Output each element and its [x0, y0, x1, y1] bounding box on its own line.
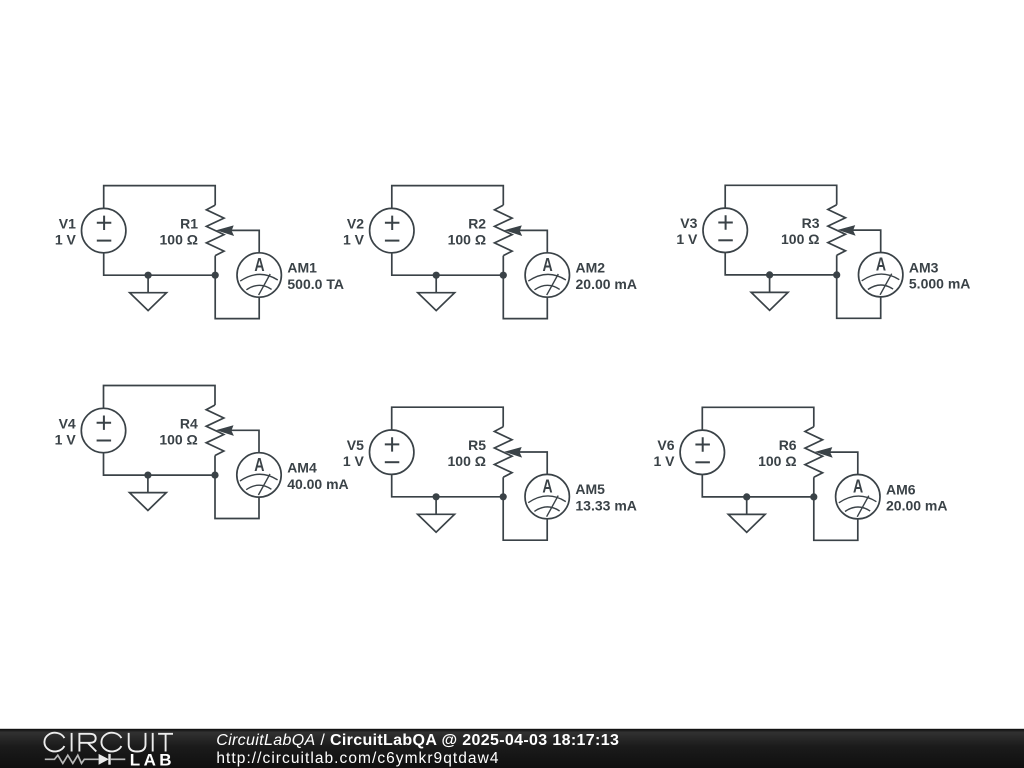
svg-text:A: A: [876, 255, 886, 275]
junction node at R1 bottom terminal: [212, 272, 219, 279]
svg-text:5.000 mA: 5.000 mA: [909, 276, 970, 292]
wire from AM5 bottom back to R5 bottom node: [503, 497, 547, 540]
logo diode: [99, 754, 126, 765]
wire from AM4 bottom back to R4 bottom node: [215, 475, 259, 518]
svg-text:AM5: AM5: [575, 481, 605, 497]
junction node at ground tap of V3 loop: [766, 271, 773, 278]
voltage source V6: [680, 430, 724, 474]
svg-text:A: A: [254, 255, 264, 275]
svg-text:20.00 mA: 20.00 mA: [886, 498, 947, 514]
wire from AM3 bottom back to R3 bottom node: [837, 275, 881, 318]
R5 wiper arrow: [504, 447, 522, 458]
ground symbol: [130, 475, 167, 510]
junction node at R4 bottom terminal: [211, 472, 218, 479]
junction node at ground tap of V6 loop: [743, 493, 750, 500]
wire from V5- terminal along bottom to R5 bottom: [392, 474, 504, 496]
potentiometer R4 zigzag body: [206, 405, 224, 456]
potentiometer R1 zigzag body: [206, 205, 224, 256]
svg-text:1 V: 1 V: [653, 453, 675, 469]
wire from V2+ terminal over to R2 top: [392, 186, 504, 209]
svg-text:100 Ω: 100 Ω: [448, 231, 486, 247]
wire from AM2 bottom back to R2 bottom node: [503, 275, 547, 318]
svg-text:R6: R6: [779, 437, 797, 453]
potentiometer R6 zigzag body: [805, 427, 823, 478]
wire from R1 wiper to AM1 top: [231, 230, 259, 252]
ammeter AM1: [237, 253, 281, 297]
wire from R5 wiper to AM5 top: [519, 452, 547, 474]
svg-text:LAB: LAB: [130, 751, 175, 768]
svg-text:40.00 mA: 40.00 mA: [287, 476, 348, 492]
ammeter AM6: [836, 475, 880, 519]
wire from V3- terminal along bottom to R3 bottom: [725, 253, 837, 275]
svg-text:100 Ω: 100 Ω: [159, 431, 197, 447]
R2 wiper arrow: [504, 225, 522, 236]
voltage source V1: [82, 208, 126, 252]
svg-text:100 Ω: 100 Ω: [758, 453, 796, 469]
svg-text:1 V: 1 V: [343, 453, 365, 469]
wire from R6 wiper to AM6 top: [830, 452, 858, 474]
svg-text:AM3: AM3: [909, 259, 939, 275]
potentiometer R2 zigzag body: [495, 205, 513, 256]
wire from R4 wiper to AM4 top: [231, 430, 259, 452]
CircuitLab logo word CIRCUIT: [44, 733, 173, 752]
junction node at ground tap of V4 loop: [144, 472, 151, 479]
junction node at ground tap of V5 loop: [433, 493, 440, 500]
R4 wiper arrow: [216, 425, 234, 436]
wire from V3+ terminal over to R3 top: [725, 185, 837, 208]
junction node at ground tap of V2 loop: [433, 272, 440, 279]
ground symbol: [130, 275, 167, 310]
potentiometer R5 zigzag body: [494, 427, 512, 478]
svg-text:A: A: [853, 477, 863, 497]
wire from V1- terminal along bottom to R1 bottom: [104, 253, 216, 275]
voltage source V3: [703, 208, 747, 252]
R1 wiper arrow: [216, 225, 234, 236]
wire from V4- terminal along bottom to R4 bottom: [104, 453, 216, 475]
svg-text:V6: V6: [657, 437, 674, 453]
svg-text:R1: R1: [180, 215, 198, 231]
svg-text:A: A: [254, 455, 264, 475]
R3 wiper arrow: [838, 225, 856, 236]
ammeter AM3: [859, 253, 903, 297]
svg-text:AM2: AM2: [576, 260, 606, 276]
junction node at R2 bottom terminal: [500, 272, 507, 279]
svg-text:R2: R2: [468, 215, 486, 231]
wire from R3 wiper to AM3 top: [853, 230, 881, 252]
svg-text:AM4: AM4: [287, 460, 317, 476]
voltage source V4: [81, 408, 125, 452]
wire from R2 wiper to AM2 top: [519, 230, 547, 252]
svg-text:http://circuitlab.com/c6ymkr9q: http://circuitlab.com/c6ymkr9qtdaw4: [216, 750, 499, 767]
svg-text:V3: V3: [680, 215, 697, 231]
svg-text:V1: V1: [59, 215, 76, 231]
svg-text:CircuitLabQA / CircuitLabQA @: CircuitLabQA / CircuitLabQA @ 2025-04-03…: [216, 732, 619, 749]
svg-text:R3: R3: [802, 215, 820, 231]
wire from V2- terminal along bottom to R2 bottom: [392, 253, 504, 275]
svg-text:100 Ω: 100 Ω: [781, 231, 819, 247]
voltage source V2: [370, 208, 414, 252]
svg-text:100 Ω: 100 Ω: [448, 453, 486, 469]
svg-text:13.33 mA: 13.33 mA: [575, 498, 636, 514]
svg-text:R4: R4: [180, 415, 198, 431]
svg-text:AM6: AM6: [886, 481, 916, 497]
voltage source V5: [370, 430, 414, 474]
wire from V5+ terminal over to R5 top: [392, 407, 504, 430]
junction node at R5 bottom terminal: [500, 493, 507, 500]
ammeter AM2: [525, 253, 569, 297]
wire from AM6 bottom back to R6 bottom node: [814, 497, 858, 540]
ammeter AM4: [237, 453, 281, 497]
wire from V6+ terminal over to R6 top: [702, 407, 814, 430]
svg-text:V5: V5: [347, 437, 364, 453]
ground symbol: [728, 497, 765, 532]
wire from V6- terminal along bottom to R6 bottom: [702, 475, 814, 497]
ammeter AM5: [525, 474, 569, 518]
wire from AM1 bottom back to R1 bottom node: [215, 275, 259, 318]
junction node at ground tap of V1 loop: [145, 272, 152, 279]
ground symbol: [418, 497, 455, 532]
svg-text:500.0 TA: 500.0 TA: [287, 276, 344, 292]
ground symbol: [751, 275, 788, 310]
svg-text:100 Ω: 100 Ω: [160, 231, 198, 247]
svg-text:A: A: [543, 255, 553, 275]
svg-text:1 V: 1 V: [676, 231, 698, 247]
junction node at R3 bottom terminal: [833, 271, 840, 278]
svg-text:1 V: 1 V: [343, 231, 365, 247]
wire from V1+ terminal over to R1 top: [104, 186, 216, 209]
svg-text:R5: R5: [468, 437, 486, 453]
svg-text:1 V: 1 V: [55, 431, 77, 447]
potentiometer R3 zigzag body: [828, 205, 846, 256]
R6 wiper arrow: [815, 447, 833, 458]
logo resistor zigzag: [45, 755, 99, 763]
ground symbol: [418, 275, 455, 310]
svg-text:A: A: [542, 477, 552, 497]
junction node at R6 bottom terminal: [810, 493, 817, 500]
svg-text:AM1: AM1: [287, 260, 317, 276]
svg-text:20.00 mA: 20.00 mA: [576, 276, 637, 292]
svg-text:V4: V4: [59, 415, 76, 431]
wire from V4+ terminal over to R4 top: [104, 386, 216, 409]
svg-text:V2: V2: [347, 215, 364, 231]
svg-text:1 V: 1 V: [55, 231, 77, 247]
